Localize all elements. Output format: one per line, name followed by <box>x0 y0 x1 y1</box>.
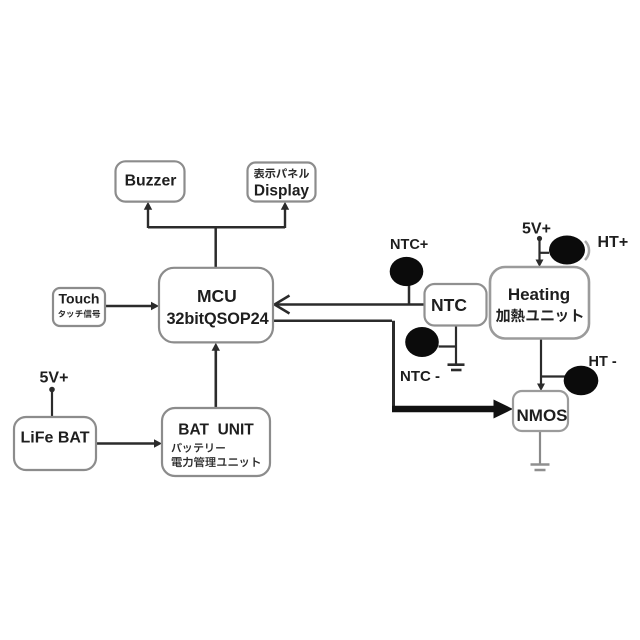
wire NTC to MCU (open arrowhead) <box>275 296 425 314</box>
svg-text:32bitQSOP24: 32bitQSOP24 <box>166 310 268 328</box>
block Buzzer <box>116 161 185 201</box>
wire LiFe BAT to BAT UNIT <box>96 439 162 447</box>
wire Touch to MCU <box>105 302 159 310</box>
wire gate vertical drop <box>392 321 395 406</box>
wire riser to Display <box>281 202 289 228</box>
svg-text:5V+: 5V+ <box>40 370 69 387</box>
wire NMOS source stem <box>539 431 541 466</box>
svg-text:LiFe BAT: LiFe BAT <box>20 430 89 447</box>
svg-text:Heating: Heating <box>508 285 570 304</box>
pad NTC- terminal <box>405 327 439 357</box>
wire HT- pad tick <box>541 375 565 377</box>
svg-text:5V+: 5V+ <box>522 220 551 237</box>
pad HT- terminal <box>564 366 599 396</box>
svg-text:BAT UNIT: BAT UNIT <box>178 422 254 439</box>
label HT+ <box>598 234 629 251</box>
ground (NTC thermistor return) <box>448 365 465 370</box>
pad HT+ terminal <box>549 236 589 265</box>
wire riser to Buzzer <box>144 202 152 228</box>
block LiFe BAT battery <box>14 417 96 470</box>
label NTC+ <box>390 237 428 253</box>
svg-text:Touch: Touch <box>59 291 100 307</box>
svg-text:NTC: NTC <box>431 295 467 315</box>
wire NTC+ pad drop <box>408 284 411 304</box>
block NMOS Q1 <box>513 391 568 431</box>
svg-text:HT -: HT - <box>589 354 617 370</box>
wire NTC ground stem <box>455 326 457 364</box>
ground (NMOS source) <box>531 465 550 471</box>
block Display (表示パネル) <box>248 163 316 202</box>
wire HT+ pad tick <box>540 252 550 254</box>
svg-text:NTC -: NTC - <box>400 368 440 385</box>
label 5V+ heater <box>522 220 551 237</box>
pad NTC+ terminal <box>390 257 424 286</box>
svg-text:NTC+: NTC+ <box>390 237 428 253</box>
block MCU U1 32bitQSOP24 <box>159 268 273 343</box>
wire top horizontal bus <box>148 226 285 229</box>
wire NTC- pad tick <box>439 345 457 347</box>
wire MCU to gate (horizontal) <box>273 320 392 323</box>
node 5V+ (heater) dot and stem with arrow <box>536 236 544 267</box>
block NTC thermistor input <box>425 284 487 326</box>
label 5V+ battery <box>40 370 69 387</box>
block Heating unit (加熱ユニット) <box>490 267 589 339</box>
block Touch sensor <box>53 288 105 326</box>
svg-text:HT+: HT+ <box>598 234 629 251</box>
block BAT UNIT power management <box>162 408 270 476</box>
node 5V+ (battery) dot and stem <box>49 387 55 417</box>
wire Heating to NMOS <box>537 339 545 392</box>
svg-text:MCU: MCU <box>197 286 237 306</box>
wire BAT UNIT to MCU <box>212 343 220 408</box>
wire MCU top riser <box>214 227 217 268</box>
svg-text:Buzzer: Buzzer <box>125 172 177 189</box>
svg-text:Display: Display <box>254 183 310 200</box>
svg-text:NMOS: NMOS <box>517 406 568 425</box>
label HT - <box>589 354 617 370</box>
label NTC - <box>400 368 440 385</box>
wire thick gate arrow into NMOS <box>392 400 513 419</box>
